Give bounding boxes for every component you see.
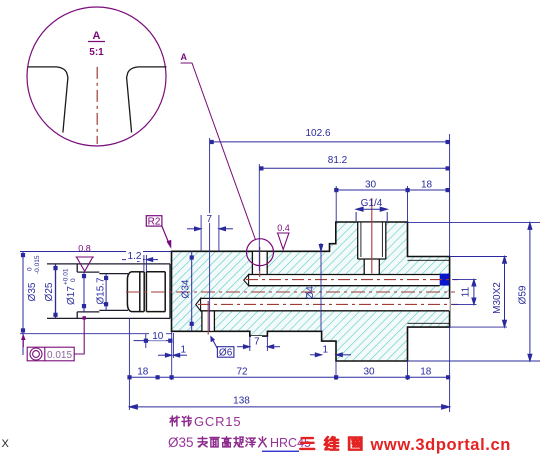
svg-text:11: 11 — [461, 286, 472, 297]
svg-text:138: 138 — [233, 395, 250, 406]
svg-text:18: 18 — [420, 366, 432, 377]
svg-text:0.8: 0.8 — [78, 244, 91, 254]
svg-text:18: 18 — [137, 366, 149, 377]
svg-text:Ø35: Ø35 — [27, 282, 38, 301]
svg-text:A: A — [93, 30, 101, 42]
svg-text:GCR15: GCR15 — [194, 414, 241, 429]
svg-text:Ø4: Ø4 — [305, 286, 316, 300]
svg-text:102.6: 102.6 — [305, 128, 330, 139]
svg-text:18: 18 — [421, 180, 433, 191]
svg-text:1: 1 — [181, 345, 187, 356]
svg-text:G1/4: G1/4 — [361, 198, 383, 209]
svg-text:7: 7 — [254, 337, 260, 348]
svg-text:R2: R2 — [148, 217, 161, 228]
svg-text:-0.015: -0.015 — [34, 255, 41, 274]
svg-text:0: 0 — [70, 278, 77, 282]
svg-text:0.015: 0.015 — [47, 350, 72, 361]
svg-text:30: 30 — [363, 366, 375, 377]
svg-text:10: 10 — [152, 331, 164, 342]
svg-text:A: A — [181, 52, 188, 62]
svg-text:30: 30 — [365, 180, 377, 191]
svg-text:Ø17: Ø17 — [66, 286, 77, 305]
svg-text:Ø34: Ø34 — [181, 279, 192, 298]
svg-text:www.3dportal.cn: www.3dportal.cn — [370, 436, 511, 454]
svg-text:+0.01: +0.01 — [63, 268, 70, 285]
svg-text:72: 72 — [236, 366, 248, 377]
svg-text:7: 7 — [207, 214, 213, 225]
svg-text:0: 0 — [27, 267, 34, 271]
svg-text:81.2: 81.2 — [328, 155, 348, 166]
svg-text:Ø6: Ø6 — [219, 348, 233, 359]
svg-text:X: X — [2, 438, 10, 450]
svg-text:M30X2: M30X2 — [492, 282, 503, 314]
svg-text:Ø25: Ø25 — [44, 282, 55, 301]
svg-text:1.2: 1.2 — [128, 251, 142, 262]
svg-text:Ø15.7: Ø15.7 — [96, 277, 107, 305]
svg-text:0.4: 0.4 — [277, 223, 290, 233]
svg-text:Ø59: Ø59 — [518, 285, 529, 304]
svg-text:5:1: 5:1 — [89, 47, 104, 58]
svg-text:1: 1 — [323, 345, 329, 356]
svg-text:Ø35: Ø35 — [168, 435, 194, 450]
